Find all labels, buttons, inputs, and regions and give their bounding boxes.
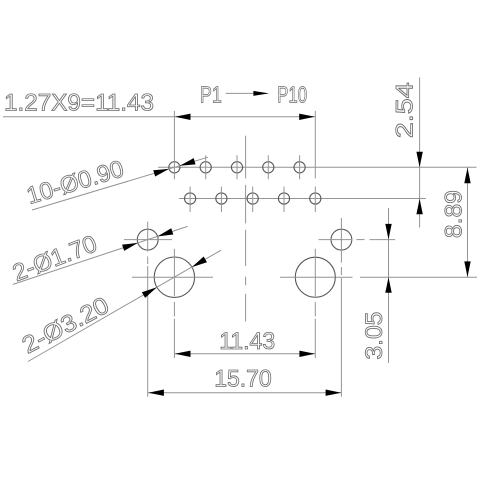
dimension 8.89 line	[467, 168, 469, 278]
svg-text:2.54: 2.54	[392, 82, 419, 138]
leader 2-3.20	[28, 250, 221, 361]
dimension 3.05 line	[388, 208, 390, 363]
pin P9	[294, 155, 305, 179]
svg-text:2-Ø3.20: 2-Ø3.20	[18, 292, 114, 359]
arrowhead 2.54 up	[416, 199, 422, 215]
hole C1 (left 1.70)	[124, 222, 172, 397]
leader 10-0.90	[32, 157, 208, 210]
leader 2-1.70	[13, 226, 188, 284]
arrowhead 15.70 left	[148, 390, 164, 396]
pin P4	[216, 187, 227, 213]
pin P10	[310, 187, 321, 213]
pin P6	[247, 187, 258, 213]
pin P2	[185, 187, 196, 213]
pin P5	[231, 155, 242, 179]
extension line right of top dim	[314, 111, 316, 178]
arrowhead leader 1.70 upper	[158, 228, 174, 236]
dimension 1.27X9=11.43 line	[3, 116, 174, 118]
pin P8	[278, 187, 289, 213]
pin P3	[200, 155, 211, 179]
svg-text:P1: P1	[200, 81, 222, 107]
arrowhead leader 3.20 upper	[192, 256, 207, 267]
arrowhead 3.05 down	[385, 224, 391, 240]
arrowhead bottom 11.43 left	[175, 351, 191, 357]
arrowhead leader 1.70 lower	[122, 243, 138, 251]
arrowhead 2.54 down	[416, 152, 422, 168]
arrowhead 3.05 up	[385, 277, 391, 293]
pin P1	[169, 111, 180, 179]
svg-text:11.43: 11.43	[219, 328, 275, 355]
hole D2 (right 3.20)	[280, 249, 477, 358]
arrowhead 15.70 right	[326, 390, 342, 396]
arrowhead bottom 11.43 right	[299, 351, 315, 357]
dimension 2.54 line	[419, 78, 421, 228]
arrowhead leader 3.20 lower	[142, 287, 157, 298]
svg-text:2-Ø1.70: 2-Ø1.70	[9, 230, 101, 287]
dimension 11.43 bottom line	[174, 353, 315, 355]
arrowhead leader 0.90 lower	[153, 169, 169, 177]
dimension 15.70 bottom line	[148, 392, 342, 394]
arrowhead top 11.43 left	[175, 114, 191, 120]
arrowhead top 11.43 right	[299, 114, 315, 120]
dimension 11.43 top line	[174, 116, 315, 118]
wire row2 centerline	[179, 198, 426, 200]
hole C2 (right 1.70)	[319, 218, 396, 397]
svg-text:10-Ø0.90: 10-Ø0.90	[23, 155, 127, 210]
hole D1 (left 3.20)	[132, 249, 213, 358]
vertical centerline of footprint	[245, 136, 247, 322]
svg-text:P10: P10	[277, 81, 307, 107]
arrowhead P1->P10	[253, 91, 269, 96]
P1->P10 arrow line	[226, 92, 258, 94]
svg-text:8.89: 8.89	[441, 190, 468, 238]
svg-text:3.05: 3.05	[361, 312, 388, 360]
wire row1 centerline	[158, 166, 477, 168]
arrowhead 8.89 down	[464, 261, 470, 277]
arrowhead 8.89 up	[464, 168, 470, 184]
pin P7	[263, 155, 274, 179]
arrowhead leader 0.90 upper	[180, 158, 196, 166]
svg-text:1.27X9=11.43: 1.27X9=11.43	[4, 90, 154, 117]
svg-text:15.70: 15.70	[214, 366, 272, 393]
